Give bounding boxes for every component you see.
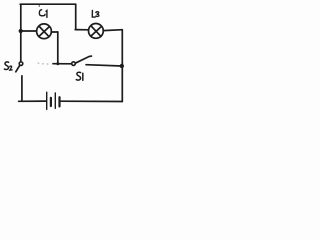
label L1: [39, 10, 47, 18]
switch S1 lever: [75, 56, 91, 63]
wire L2 right: [103, 29, 122, 32]
switch S2 pivot: [19, 62, 23, 66]
wire L1 right: [51, 31, 58, 33]
node junction L1-left: [19, 29, 23, 33]
ink speck: [39, 5, 40, 7]
wire bottom right: [61, 100, 123, 102]
switch S2 lever: [16, 65, 20, 71]
wire right vertical: [121, 30, 123, 102]
wire S1 right: [86, 65, 122, 66]
battery cell plate short 2: [58, 97, 60, 106]
wire L1 left: [21, 30, 37, 32]
label S1: [76, 72, 83, 80]
battery cell plate long 2: [54, 93, 56, 108]
switch S1 pivot: [72, 62, 76, 66]
wire bottom left: [19, 100, 46, 102]
wire L2 branch vertical: [75, 4, 77, 29]
wire left vertical upper: [20, 4, 22, 61]
battery cell plate short 1: [50, 98, 52, 106]
battery cell plate long 1: [46, 92, 48, 109]
lamp L1: [37, 24, 52, 39]
wire left vertical lower: [21, 76, 23, 101]
label S2: [4, 62, 12, 70]
wire S1 left: [53, 63, 72, 65]
node junction S1-right: [120, 64, 124, 68]
label L2: [92, 10, 99, 17]
wire top: [20, 3, 75, 5]
node junction S1-left: [56, 62, 59, 65]
lamp L2: [89, 24, 104, 39]
wire L1 down to S1: [57, 32, 59, 64]
wire L2 left: [75, 29, 89, 31]
smudge marks: [38, 62, 49, 65]
